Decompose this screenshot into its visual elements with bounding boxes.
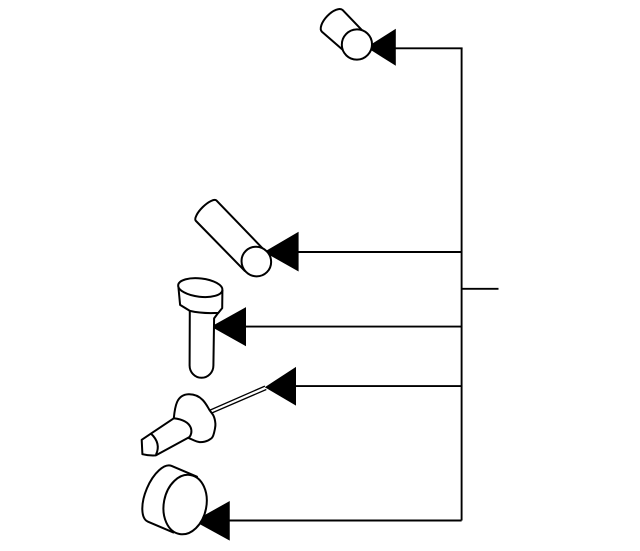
bolt head top face (177, 276, 223, 299)
wire to part 3 (244, 326, 462, 328)
arrow 2 (264, 232, 299, 272)
wire to part 4 (294, 385, 462, 387)
vertical leader line (461, 48, 463, 520)
wire to part 5 (228, 520, 462, 522)
sensor dome body (174, 394, 216, 442)
sensor needle (210, 386, 266, 413)
arrow 5 (194, 501, 230, 541)
sensor stem tip cut edge (151, 434, 158, 455)
arrow 1 (367, 29, 396, 66)
arrow 3 (211, 307, 246, 346)
part 2 pin cylinder (192, 197, 277, 283)
wire to part 1 (394, 47, 463, 49)
part 1 plug cylinder (317, 5, 379, 66)
bolt head body (178, 286, 222, 313)
wire to part 2 (296, 251, 462, 253)
stub wire (462, 288, 499, 290)
part 3 bolt (177, 276, 223, 378)
sensor stem cylinder (142, 418, 192, 455)
bolt shank (190, 310, 219, 378)
part 5 cap cylinder (134, 457, 224, 546)
arrow 4 (265, 367, 296, 406)
part 4 sensor (142, 386, 267, 455)
